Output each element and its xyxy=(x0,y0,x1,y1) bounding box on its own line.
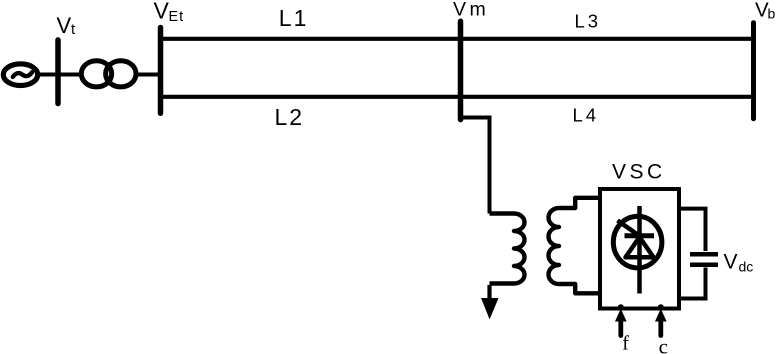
svg-text:L1: L1 xyxy=(279,5,309,31)
svg-text:Vm: Vm xyxy=(453,0,489,21)
line L1 wire (top left) xyxy=(161,37,461,41)
wire capacitor bottom to VSC xyxy=(680,268,706,299)
svg-text:c: c xyxy=(659,334,668,354)
svg-text:b: b xyxy=(768,6,776,22)
wire Vm tap to transformer T2 xyxy=(461,118,490,214)
svg-text:L4: L4 xyxy=(573,104,600,125)
ground arrow xyxy=(482,285,498,318)
bus VEt xyxy=(158,28,164,114)
svg-text:L2: L2 xyxy=(275,104,305,130)
bus Vm xyxy=(458,21,464,119)
wire source to transformer xyxy=(37,73,80,77)
svg-text:V: V xyxy=(724,251,738,274)
svg-text:Et: Et xyxy=(169,9,185,25)
bus Vt xyxy=(55,40,61,104)
svg-text:t: t xyxy=(71,21,76,38)
line L2 wire (bottom left) xyxy=(161,95,461,99)
svg-text:VSC: VSC xyxy=(612,160,666,183)
valve gate diagonal xyxy=(618,221,641,237)
wire transformer to bus VEt xyxy=(137,73,160,77)
bus Vb xyxy=(751,23,756,119)
AC source G1 xyxy=(3,64,37,86)
wire VSC to capacitor top xyxy=(680,209,706,251)
line L4 wire (bottom right) xyxy=(461,95,754,99)
VSC box U1 xyxy=(600,189,679,309)
svg-text:f: f xyxy=(622,332,629,354)
svg-text:L3: L3 xyxy=(575,11,602,32)
line L3 wire (top right) xyxy=(461,37,754,41)
valve triangle xyxy=(626,237,654,257)
transformer T2 primary winding xyxy=(490,214,525,284)
valve vertical lead xyxy=(637,206,642,294)
control input arrow f xyxy=(615,304,627,335)
transformer T1 xyxy=(81,61,136,87)
valve circle xyxy=(613,216,662,268)
valve cathode bar xyxy=(625,233,655,238)
svg-text:dc: dc xyxy=(739,259,754,275)
svg-text:V: V xyxy=(154,0,170,24)
transformer T2 secondary winding xyxy=(549,198,602,293)
capacitor Cdc xyxy=(690,254,718,264)
svg-text:V: V xyxy=(57,13,72,38)
control input arrow c xyxy=(655,304,667,335)
